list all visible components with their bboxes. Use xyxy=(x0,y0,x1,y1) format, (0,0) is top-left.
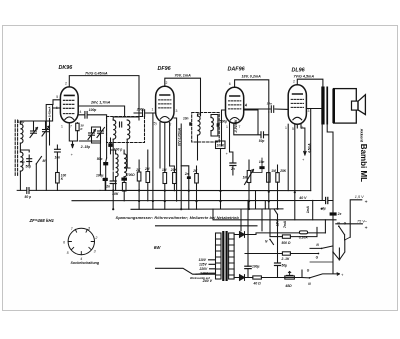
tube DF96 envelope xyxy=(156,86,174,122)
trimmer cap 1 xyxy=(31,130,37,132)
cap 50p left xyxy=(27,158,32,160)
svg-text:G: G xyxy=(344,222,347,226)
ferrite antenna rod (dashed) xyxy=(14,120,16,176)
tube DK96 filament xyxy=(65,117,74,120)
tube DK96 grids xyxy=(63,99,75,101)
svg-text:1,5 V: 1,5 V xyxy=(355,195,364,199)
svg-text:DF96: DF96 xyxy=(158,66,172,72)
tube DK96 anode wire to HT rail xyxy=(69,76,139,117)
svg-text:50p: 50p xyxy=(259,139,265,143)
svg-text:ZF=468 kHz: ZF=468 kHz xyxy=(29,218,55,223)
svg-text:500p: 500p xyxy=(220,119,227,123)
svg-text:2–15p: 2–15p xyxy=(80,145,90,149)
svg-text:110V: 110V xyxy=(199,258,207,262)
oscillator coil B xyxy=(124,154,127,177)
svg-text:500 Ω: 500 Ω xyxy=(282,241,291,245)
vertical drops from buses to power unit xyxy=(241,191,313,263)
svg-text:10n: 10n xyxy=(183,117,189,121)
resistor 30K vertical xyxy=(76,123,79,131)
band switch MW xyxy=(37,157,42,164)
osc coupling cap 100p (filled) xyxy=(108,143,112,147)
output transformer secondary bar xyxy=(326,87,328,125)
svg-text:40 V: 40 V xyxy=(298,196,307,200)
DK96 osc wire down xyxy=(69,123,100,143)
svg-text:25K: 25K xyxy=(279,169,287,173)
svg-text:2: 2 xyxy=(65,82,67,86)
svg-text:100µ: 100µ xyxy=(252,265,260,269)
tube DL96 envelope xyxy=(288,85,306,124)
svg-text:+: + xyxy=(365,226,368,232)
svg-text:48Ω: 48Ω xyxy=(284,284,292,288)
svg-text:Sockelschaltung: Sockelschaltung xyxy=(71,261,100,265)
resistor 1M under DF96 xyxy=(163,173,167,184)
lower horizontal into switches xyxy=(310,237,350,262)
svg-text:3: 3 xyxy=(94,250,96,254)
svg-text:2x: 2x xyxy=(337,212,342,216)
resistor 1M grid DL96 xyxy=(267,173,271,183)
tube DL96 grids xyxy=(291,98,303,100)
battery 1,5V terminal xyxy=(350,200,362,237)
svg-text:100p: 100p xyxy=(89,108,97,112)
T1 trim caps xyxy=(119,122,121,127)
svg-text:5: 5 xyxy=(67,251,69,255)
DL96 cathode wires down xyxy=(295,109,322,193)
svg-text:50p: 50p xyxy=(97,157,103,161)
bus L3 rail xyxy=(72,200,333,202)
svg-text:240 V: 240 V xyxy=(202,279,213,283)
svg-text:50p: 50p xyxy=(26,164,32,168)
svg-text:Bambi ML: Bambi ML xyxy=(359,144,368,182)
DK96 grid2 line with 100p series cap xyxy=(79,115,107,158)
200p coupling cap to DF96 xyxy=(134,112,156,114)
arrow to plus xyxy=(301,124,306,155)
mains line to selector xyxy=(156,268,216,274)
T2 secondary coil xyxy=(211,118,213,131)
tube DK96 anode xyxy=(65,94,75,96)
svg-text:7: 7 xyxy=(70,125,72,129)
resistor 500 ohm xyxy=(282,235,290,238)
svg-text:6: 6 xyxy=(229,82,231,86)
svg-text:5: 5 xyxy=(56,95,58,99)
output transformer primary bar xyxy=(321,87,324,125)
grid feed wires x=46.3 x=53 xyxy=(46,100,60,191)
tube DAF96 envelope xyxy=(226,87,244,123)
resistor 2K vertical xyxy=(137,172,141,181)
T1 wires xyxy=(113,117,139,170)
svg-text:0,45mA: 0,45mA xyxy=(48,107,52,118)
svg-text:18V, 0,2mA: 18V, 0,2mA xyxy=(242,74,262,78)
svg-text:40 Ω: 40 Ω xyxy=(253,282,262,286)
svg-text:2: 2 xyxy=(293,80,295,84)
transformer lead wires xyxy=(322,125,333,201)
svg-text:700Ω: 700Ω xyxy=(127,173,135,177)
boxed resistor left of DK96 xyxy=(46,105,52,122)
switch cluster center xyxy=(333,220,345,273)
mains transformer core xyxy=(222,231,224,281)
svg-text:+: + xyxy=(365,199,368,205)
tube DF96 grids xyxy=(159,99,171,101)
svg-text:4: 4 xyxy=(80,110,82,114)
svg-text:3: 3 xyxy=(176,109,178,113)
wires around trimmers xyxy=(79,127,100,143)
resistor 700 vertical xyxy=(122,183,126,192)
svg-text:5: 5 xyxy=(292,127,294,131)
resistor 2M vertical xyxy=(146,172,150,183)
svg-text:6: 6 xyxy=(63,241,65,245)
top supply line xyxy=(256,233,325,235)
svg-text:100µ: 100µ xyxy=(96,174,104,178)
svg-text:DL96: DL96 xyxy=(292,68,306,74)
svg-text:50 p: 50 p xyxy=(25,195,32,199)
DF96 grid/cathode drop wires xyxy=(153,113,177,209)
T2 shield box (dashed) xyxy=(192,113,220,143)
cap 500p xyxy=(260,132,262,138)
svg-text:1M: 1M xyxy=(243,175,248,179)
lower left bus with series cap 50p xyxy=(17,189,100,191)
volume pot 1M xyxy=(247,171,251,183)
wire x=181 xyxy=(180,124,182,209)
cap 2n xyxy=(110,180,116,182)
svg-text:2M: 2M xyxy=(144,167,150,171)
wires antenna top xyxy=(20,121,46,131)
bus D rail xyxy=(213,209,336,220)
tube DL96 filament xyxy=(293,117,302,120)
svg-text:6W: 6W xyxy=(154,245,161,250)
resistor 20K under DF96 xyxy=(173,173,177,184)
svg-text:70V, 1mA: 70V, 1mA xyxy=(175,73,192,77)
trimmer 2-15p xyxy=(89,132,95,134)
wires left column xyxy=(20,150,29,165)
svg-text:10K: 10K xyxy=(112,192,119,196)
pot 48 ohm xyxy=(285,271,295,277)
diode line DAF96 xyxy=(222,110,226,146)
osc trimmer 2 xyxy=(98,130,104,132)
svg-text:200p: 200p xyxy=(136,107,145,111)
speaker cone xyxy=(358,95,365,115)
fuse 0,16A xyxy=(299,231,307,234)
grid coupling cap DAF96 to DL96 xyxy=(244,108,289,110)
cap 40u xyxy=(325,197,327,203)
svg-text:1: 1 xyxy=(61,125,63,129)
speaker frame xyxy=(334,89,357,124)
voltage tap lines xyxy=(196,260,216,274)
svg-text:-0,9V/MK: -0,9V/MK xyxy=(234,119,238,133)
svg-text:1: 1 xyxy=(88,226,90,230)
svg-text:DAF96: DAF96 xyxy=(228,67,246,73)
svg-text:2: 2 xyxy=(94,236,97,240)
svg-text:1: 1 xyxy=(226,125,228,129)
antenna coil L1 xyxy=(20,124,23,143)
speaker magnet xyxy=(352,101,359,110)
tube DAF96 filament xyxy=(230,118,239,121)
svg-text:1: 1 xyxy=(285,126,287,130)
resistor 40 ohm xyxy=(253,276,262,279)
svg-text:1: 1 xyxy=(152,108,154,112)
tube DAF96 grids xyxy=(229,100,241,102)
tube DK96 envelope xyxy=(60,87,78,123)
T1 shield box (dashed) xyxy=(107,117,145,143)
resistor 250p xyxy=(276,173,279,183)
resistor 2K under DF96 xyxy=(195,174,199,184)
osc coil wires xyxy=(106,150,124,191)
T2 right cap black xyxy=(217,123,220,126)
junction dots on buses xyxy=(112,189,114,191)
rectifier diode bottom xyxy=(234,275,250,281)
svg-text:4: 4 xyxy=(244,104,247,108)
svg-text:2: 2 xyxy=(166,81,168,85)
T2 primary coil xyxy=(198,116,201,135)
battery 75V terminal xyxy=(336,223,363,225)
svg-text:–: – xyxy=(364,218,367,223)
cap 2n AF xyxy=(230,162,236,164)
tube DF96 anode xyxy=(160,94,170,96)
resistor 100K vertical xyxy=(56,173,60,184)
svg-text:G: G xyxy=(307,269,310,273)
rectifier diode top xyxy=(234,232,256,238)
antenna coil L2 xyxy=(20,152,23,171)
mains transformer primary winding xyxy=(216,233,222,279)
switch N on feed xyxy=(270,239,274,244)
svg-text:7: 7 xyxy=(239,125,241,129)
svg-text:Spannungsmesser: Röhrenvoltmet: Spannungsmesser: Röhrenvoltmeter; Meßwer… xyxy=(116,215,240,220)
tube DF96 filament xyxy=(160,117,169,120)
svg-text:220V: 220V xyxy=(199,267,209,271)
oscillator coil A xyxy=(116,154,119,177)
switch on L4 xyxy=(274,209,278,214)
svg-text:2K: 2K xyxy=(135,168,141,172)
svg-text:2n: 2n xyxy=(184,172,189,176)
svg-text:7V/G 4,5mA: 7V/G 4,5mA xyxy=(294,74,315,78)
cap 10n xyxy=(55,148,61,150)
mains transformer secondary winding xyxy=(229,233,235,279)
svg-text:Akkord: Akkord xyxy=(360,129,365,143)
speaker return wire xyxy=(310,109,312,191)
svg-text:2K: 2K xyxy=(192,169,198,173)
svg-text:1M: 1M xyxy=(162,168,167,172)
svg-text:7V/G 0,45mA: 7V/G 0,45mA xyxy=(85,72,108,76)
tube DL96 anode wire xyxy=(297,79,323,86)
svg-text:20K: 20K xyxy=(170,168,178,172)
svg-text:125V: 125V xyxy=(199,263,208,267)
trimmer cap 2 xyxy=(43,129,49,131)
tube DL96 anode xyxy=(293,93,303,95)
svg-text:2–1K: 2–1K xyxy=(281,257,291,261)
svg-text:26V, 1,7mA: 26V, 1,7mA xyxy=(90,101,111,105)
cap 100u supply xyxy=(245,265,251,267)
speaker frame thick left edge xyxy=(332,89,335,124)
T2 wires xyxy=(198,114,218,160)
svg-text:3: 3 xyxy=(308,109,310,113)
cap 100u xyxy=(103,178,108,181)
T1 primary coil xyxy=(113,120,116,139)
tube DAF96 anode wire xyxy=(235,80,269,112)
cap 10n AF coupling xyxy=(259,166,264,169)
T1 secondary coil xyxy=(127,120,130,139)
tube DAF96 anode xyxy=(230,95,240,97)
osc grid blob cap xyxy=(121,178,127,181)
arrow to plus under DK96 xyxy=(71,141,73,148)
resistor 2-1K xyxy=(282,252,290,255)
DK96 screen wire xyxy=(78,106,124,117)
svg-text:10n: 10n xyxy=(267,102,272,106)
svg-text:DK96: DK96 xyxy=(59,65,74,71)
svg-text:G: G xyxy=(316,255,319,259)
bus L1 chassis rail xyxy=(100,189,311,191)
T2 trim cap black xyxy=(189,122,192,125)
svg-text:50µ: 50µ xyxy=(282,263,288,267)
svg-text:1mA: 1mA xyxy=(306,205,310,213)
svg-text:7mA: 7mA xyxy=(283,220,287,228)
electrolytic 2x block xyxy=(330,212,337,215)
socket circle xyxy=(68,228,94,254)
cap 2n under DF96 xyxy=(187,176,191,179)
svg-text:100K: 100K xyxy=(217,144,225,148)
bus L4 rail xyxy=(131,201,283,210)
tube DF96 anode wire xyxy=(165,78,201,115)
resistor 100K boxed xyxy=(216,141,226,149)
DL96 grid return wire xyxy=(287,124,289,190)
cap 50u supply xyxy=(275,262,281,264)
svg-text:M: M xyxy=(43,159,46,163)
osc padder cap 50p (filled) xyxy=(103,162,108,165)
socket pin ticks xyxy=(68,229,94,254)
